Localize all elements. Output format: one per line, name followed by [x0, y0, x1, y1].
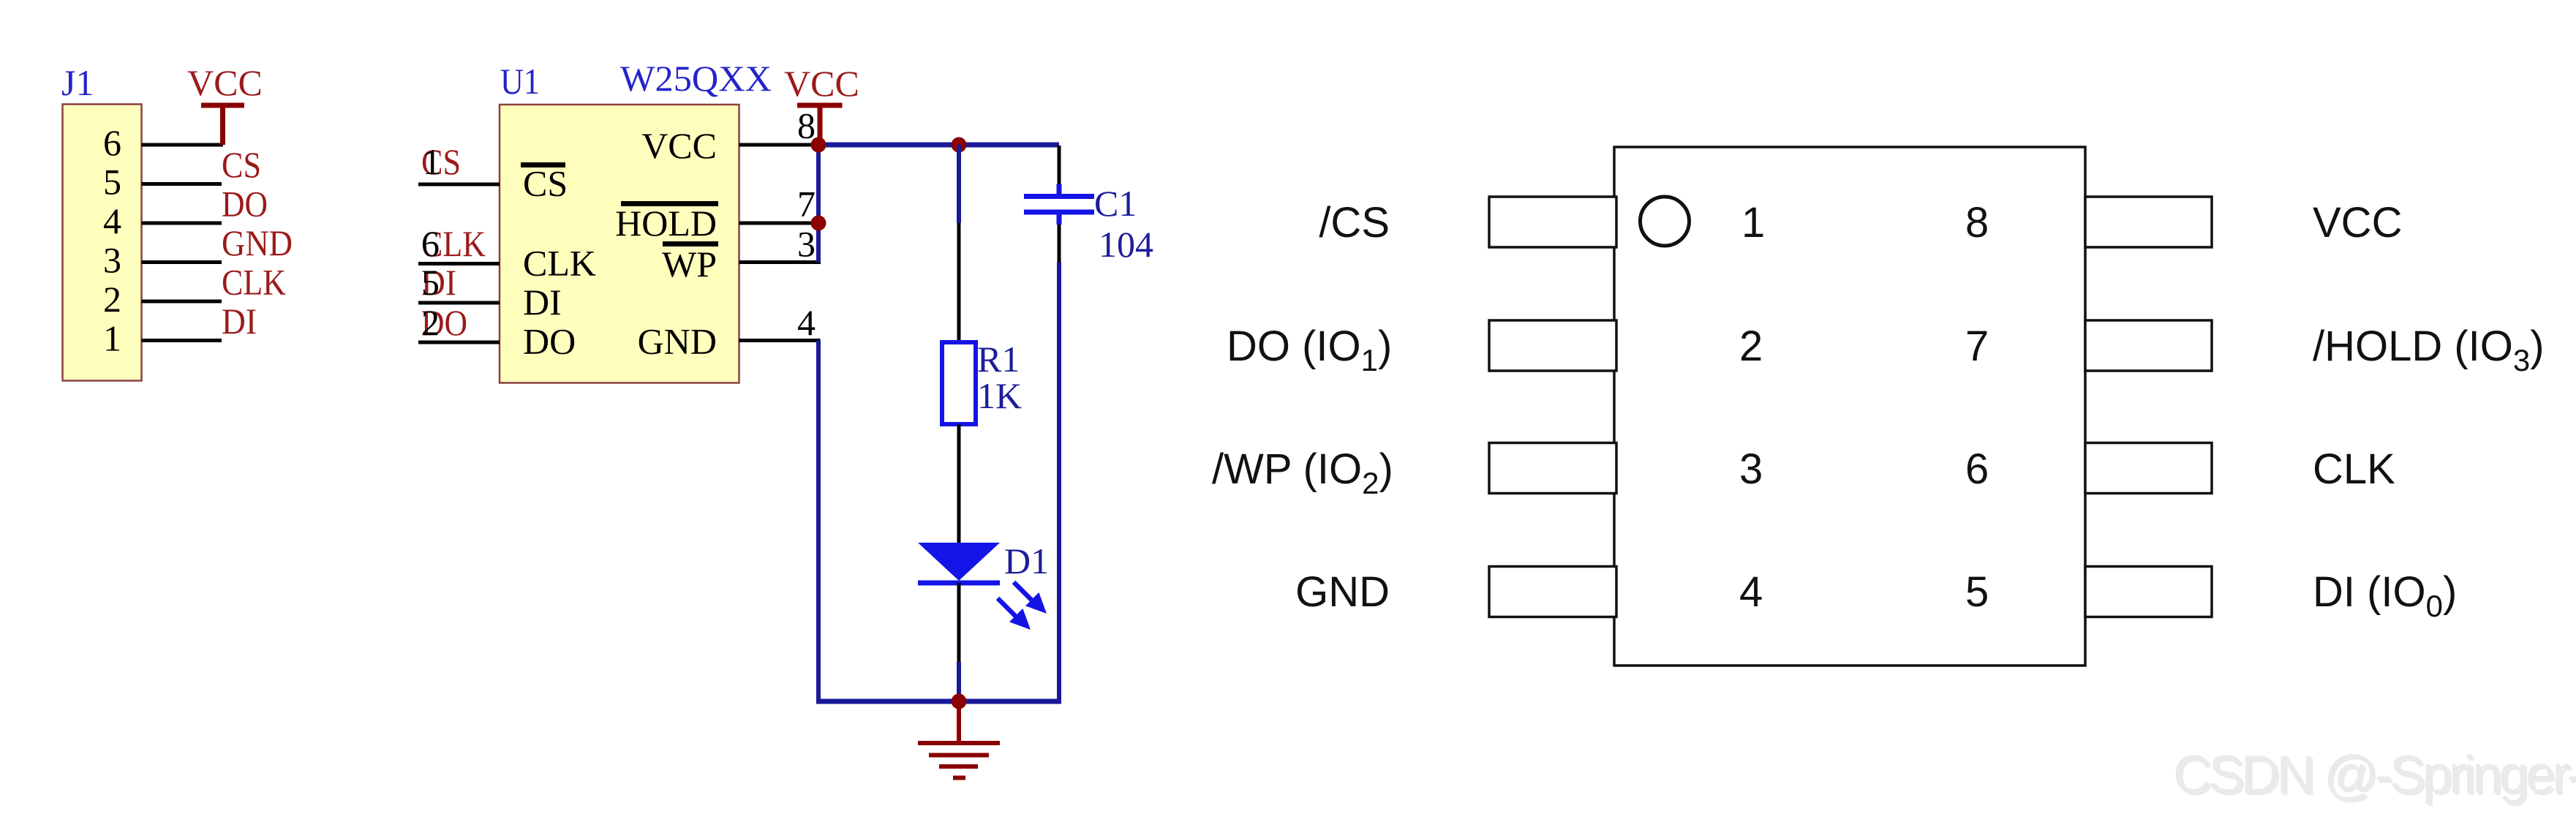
svg-text:5: 5	[421, 262, 440, 303]
svg-text:VCC: VCC	[187, 62, 263, 103]
wire U1 pin 4 (GND)	[739, 339, 821, 342]
svg-text:C1: C1	[1094, 183, 1137, 224]
pin label CLK (pkg)	[2313, 445, 2395, 493]
label J1	[61, 62, 94, 103]
svg-text:VCC: VCC	[641, 125, 717, 166]
pin label VCC (pkg)	[2313, 199, 2402, 246]
pin number 1 (U1)	[423, 141, 441, 182]
pin number 3 (U1)	[797, 224, 816, 265]
pin box left 3	[1489, 443, 1616, 494]
pin number 5 (J1)	[103, 162, 121, 203]
pin box left 1	[1489, 197, 1616, 247]
label U1	[500, 61, 540, 102]
svg-text:D1: D1	[1004, 540, 1049, 581]
wire J1 pin 1	[142, 339, 222, 342]
pin number 1 (pkg)	[1741, 199, 1765, 246]
net label CLK (U1 left)	[421, 223, 486, 264]
pin name VCC (U1)	[641, 125, 717, 166]
wire R1 to D1	[957, 424, 961, 544]
label VCC (J1)	[187, 62, 263, 103]
svg-text:6: 6	[103, 122, 121, 163]
wire U1 pin 3 (WP)	[739, 260, 821, 264]
pin number 7 (pkg)	[1965, 323, 1989, 370]
pin box right 5	[2085, 567, 2212, 617]
wire J1 pin 3	[142, 260, 222, 264]
svg-text:5: 5	[103, 162, 121, 203]
net label DI (U1 left)	[421, 262, 456, 303]
pin label /WP (IO2)	[1212, 445, 1393, 500]
pin number 2 (U1)	[421, 302, 440, 343]
pin name DO (U1)	[523, 321, 576, 362]
svg-text:U1: U1	[500, 61, 540, 102]
svg-text:VCC: VCC	[784, 63, 859, 104]
wire U1 pin 8 (VCC)	[739, 143, 819, 147]
label C1	[1094, 183, 1137, 224]
wire J1 pin 2	[142, 300, 222, 304]
net label DO (J1)	[222, 184, 268, 225]
svg-text:4: 4	[797, 302, 816, 343]
IC U1 body	[500, 105, 739, 383]
LED D1	[918, 543, 1047, 630]
pin number 6 (pkg)	[1965, 445, 1989, 493]
junction R1 top	[952, 137, 967, 153]
svg-text:2: 2	[1739, 323, 1763, 370]
pin number 7 (U1)	[797, 184, 816, 225]
pin box left 2	[1489, 320, 1616, 371]
pin number 2 (pkg)	[1739, 323, 1763, 370]
svg-text:104: 104	[1099, 224, 1153, 265]
svg-text:3: 3	[103, 240, 121, 281]
pin name DI (U1)	[523, 282, 562, 323]
svg-text:4: 4	[103, 200, 121, 241]
svg-text:1: 1	[423, 141, 441, 182]
pin name CS with overline (U1)	[521, 163, 568, 204]
pin label /HOLD (IO3)	[2313, 323, 2545, 377]
net label GND (J1)	[222, 222, 293, 263]
pin box right 6	[2085, 443, 2212, 494]
svg-text:CSDN @-Springer-: CSDN @-Springer-	[2173, 745, 2576, 804]
net label CS (U1 left)	[421, 141, 461, 182]
wire right rail blue	[1057, 263, 1061, 702]
pin number 6 (J1)	[103, 122, 121, 163]
wire U1 pin 7 (HOLD)	[739, 222, 819, 225]
IC package outline	[1614, 147, 2085, 666]
net label DI (J1)	[222, 301, 257, 342]
power VCC symbol (U1 pin 8)	[797, 105, 843, 141]
wire U1 pin 6 (CLK)	[418, 262, 500, 265]
wire U1 pin 1 (CS)	[418, 183, 500, 186]
svg-text:WP: WP	[662, 244, 717, 284]
svg-text:CS: CS	[222, 144, 261, 185]
svg-text:1: 1	[1741, 199, 1765, 246]
label D1	[1004, 540, 1049, 581]
svg-text:1K: 1K	[977, 375, 1022, 416]
pin number 2 (J1)	[103, 279, 121, 320]
pin name GND (U1)	[638, 321, 717, 362]
pin number 5 (pkg)	[1965, 568, 1989, 616]
wire C1 branch black upper	[1058, 146, 1061, 185]
svg-text:3: 3	[797, 224, 816, 265]
pin label GND	[1295, 568, 1390, 616]
value 1K	[977, 375, 1022, 416]
svg-text:CLK: CLK	[2313, 445, 2395, 493]
pin number 8 (pkg)	[1965, 199, 1989, 246]
pin box right 7	[2085, 320, 2212, 371]
pin number 4 (J1)	[103, 200, 121, 241]
svg-text:CLK: CLK	[523, 243, 596, 284]
wire U1 pin 2 (DO)	[418, 341, 500, 344]
svg-text:GND: GND	[1295, 568, 1390, 616]
wire J1 pin 4	[142, 222, 222, 225]
svg-text:DO: DO	[523, 321, 576, 362]
net label DO (U1 left)	[421, 302, 467, 343]
pin name WP with overline (U1)	[662, 244, 718, 284]
wire C1 branch black lower	[1058, 225, 1061, 263]
pin label DI (IO0)	[2313, 568, 2457, 623]
pin number 4 (U1)	[797, 302, 816, 343]
pin number 3 (pkg)	[1739, 445, 1763, 493]
svg-text:J1: J1	[61, 62, 94, 103]
connector J1 body	[63, 105, 142, 381]
junction pin 7	[811, 216, 826, 231]
net label CLK (J1)	[222, 262, 286, 303]
wire D1 to bottom blue	[957, 662, 961, 701]
svg-text:1: 1	[103, 318, 121, 359]
svg-text:4: 4	[1739, 568, 1763, 616]
power VCC symbol (J1)	[201, 105, 244, 145]
svg-text:8: 8	[1965, 199, 1989, 246]
svg-text:5: 5	[1965, 568, 1989, 616]
svg-text:GND: GND	[638, 321, 717, 362]
svg-text:7: 7	[1965, 323, 1989, 370]
pin number 5 (U1)	[421, 262, 440, 303]
resistor R1	[942, 342, 976, 424]
wire bottom rail	[816, 699, 1061, 704]
pin number 6 (U1)	[421, 223, 440, 264]
label VCC (U1 pin 8)	[784, 63, 859, 104]
wire R1 branch black upper	[957, 223, 961, 344]
svg-text:/CS: /CS	[1319, 199, 1390, 246]
svg-text:CLK: CLK	[222, 262, 286, 303]
pin box left 4	[1489, 567, 1616, 617]
pin label /CS	[1319, 199, 1390, 246]
wire VCC rail vertical to WP	[816, 145, 821, 263]
wire R1 branch blue upper	[957, 145, 961, 223]
svg-text:6: 6	[421, 223, 440, 264]
pin box right 8	[2085, 197, 2212, 247]
wire J1 pin 6	[142, 143, 224, 147]
pin number 4 (pkg)	[1739, 568, 1763, 616]
label W25QXX	[620, 58, 772, 99]
label R1	[977, 339, 1020, 380]
wire D1 to bottom black	[957, 583, 961, 662]
pin name HOLD with overline (U1)	[615, 203, 718, 244]
svg-text:2: 2	[421, 302, 440, 343]
pin label DO (IO1)	[1227, 323, 1392, 377]
svg-text:DO: DO	[222, 184, 268, 225]
junction pin 8	[811, 137, 826, 153]
svg-text:DI: DI	[523, 282, 562, 323]
wire J1 pin 5	[142, 182, 222, 186]
pin number 1 (J1)	[103, 318, 121, 359]
svg-text:3: 3	[1739, 445, 1763, 493]
capacitor C1	[1024, 184, 1094, 225]
svg-text:HOLD: HOLD	[615, 203, 717, 244]
pin number 3 (J1)	[103, 240, 121, 281]
watermark CSDN @-Springer-	[2173, 745, 2576, 807]
wire U1 pin 5 (DI)	[418, 301, 500, 305]
svg-text:DI: DI	[222, 301, 257, 342]
net label CS (J1)	[222, 144, 261, 185]
svg-text:VCC: VCC	[2313, 199, 2402, 246]
pin 1 indicator circle	[1641, 197, 1690, 246]
svg-text:2: 2	[103, 279, 121, 320]
svg-text:/HOLD (IO3): /HOLD (IO3)	[2313, 323, 2545, 377]
ground symbol	[918, 701, 1000, 778]
wire VCC rail horizontal	[818, 143, 1059, 148]
svg-text:6: 6	[1965, 445, 1989, 493]
svg-text:R1: R1	[977, 339, 1020, 380]
svg-text:CS: CS	[523, 163, 568, 204]
svg-text:GND: GND	[222, 222, 293, 263]
pin number 8 (U1)	[797, 105, 816, 146]
pin name CLK (U1)	[523, 243, 596, 284]
value 104	[1099, 224, 1153, 265]
svg-text:W25QXX: W25QXX	[620, 58, 772, 99]
junction ground	[952, 694, 967, 709]
wire GND pin 4 vertical	[816, 341, 821, 702]
